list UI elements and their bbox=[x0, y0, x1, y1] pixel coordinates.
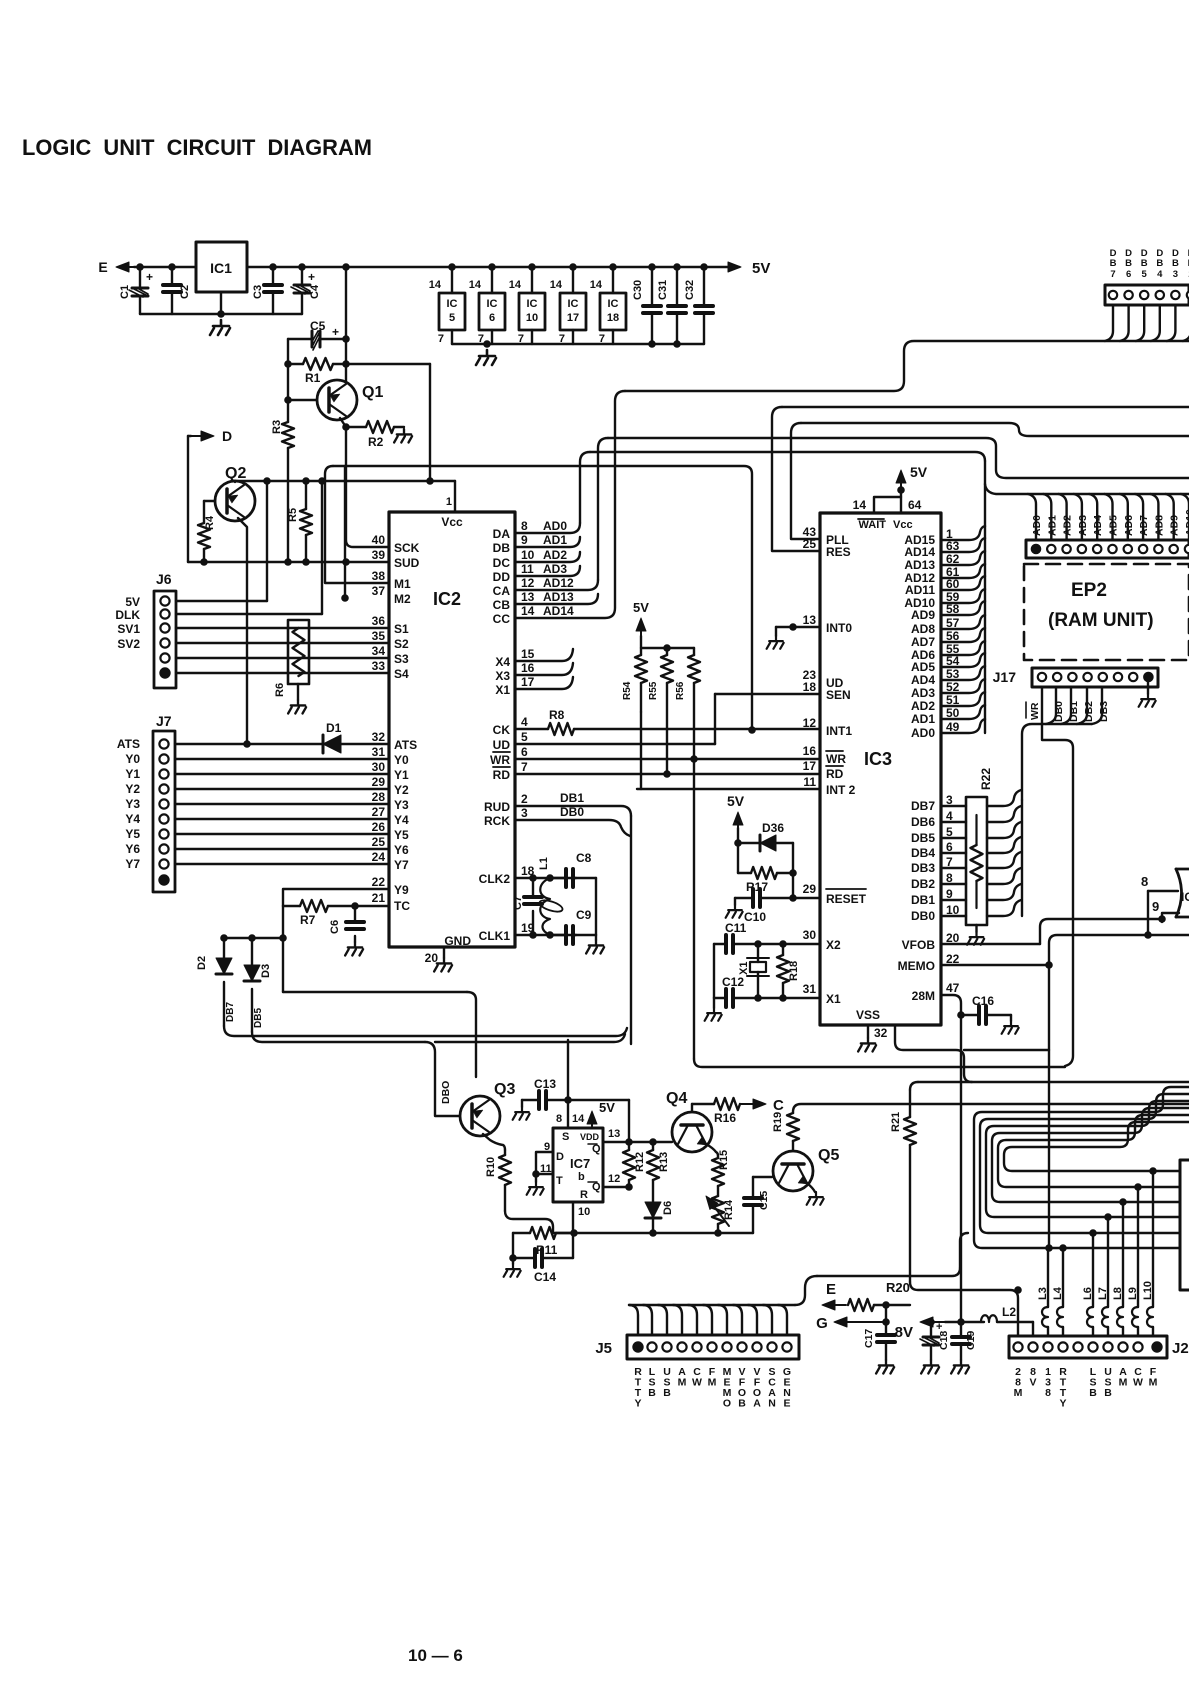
bus riser x=580 to bus line y=452 bbox=[580, 452, 590, 523]
svg-text:C1: C1 bbox=[119, 285, 131, 299]
svg-text:Y4: Y4 bbox=[125, 812, 140, 826]
wire: DB5/DB0 line right bbox=[252, 1032, 425, 1042]
svg-text:17: 17 bbox=[803, 759, 817, 773]
svg-text:B: B bbox=[648, 1387, 656, 1399]
capacitor C1 bbox=[136, 263, 144, 271]
svg-text:DB: DB bbox=[493, 541, 511, 555]
wire: vertical from R7 down to Q3 feed line bbox=[282, 906, 284, 938]
wire: Q5 base from C15 bbox=[753, 1176, 772, 1178]
svg-text:M: M bbox=[708, 1377, 717, 1389]
svg-text:RESET: RESET bbox=[826, 892, 867, 906]
bottom rail of IC7 block bbox=[553, 1232, 753, 1234]
bus: J5 pin entries onto bus line y=1305 bbox=[629, 1305, 638, 1335]
svg-text:8: 8 bbox=[556, 1113, 562, 1125]
svg-text:+: + bbox=[332, 325, 339, 339]
svg-text:AD3: AD3 bbox=[911, 686, 935, 700]
svg-text:IC2: IC2 bbox=[433, 589, 461, 609]
svg-text:M1: M1 bbox=[394, 577, 411, 591]
wire: Q2 collector bbox=[234, 481, 236, 482]
svg-text:N: N bbox=[768, 1398, 776, 1410]
svg-text:Y3: Y3 bbox=[394, 798, 409, 812]
svg-text:14: 14 bbox=[853, 498, 867, 512]
svg-text:IC3: IC3 bbox=[864, 749, 892, 769]
svg-text:C14: C14 bbox=[534, 1270, 556, 1284]
svg-text:TC: TC bbox=[394, 899, 410, 913]
svg-text:13: 13 bbox=[521, 590, 535, 604]
svg-text:M: M bbox=[1149, 1377, 1158, 1389]
svg-text:C31: C31 bbox=[657, 280, 669, 300]
wire: C13 node up bbox=[567, 1040, 569, 1100]
svg-text:IC: IC bbox=[487, 298, 498, 310]
svg-text:D3: D3 bbox=[260, 964, 272, 978]
svg-text:14: 14 bbox=[521, 604, 535, 618]
resistor R2 bbox=[346, 426, 366, 428]
svg-text:C: C bbox=[773, 1097, 784, 1114]
wires: L columns up to bus lines bbox=[1062, 1248, 1064, 1307]
svg-text:J7: J7 bbox=[156, 713, 172, 729]
wire: Q3 emitter to R10 bbox=[483, 1134, 505, 1150]
svg-text:Q: Q bbox=[592, 1143, 601, 1155]
wire: Q4 emitter to R15 bbox=[706, 1144, 718, 1156]
wires: AD strip pins up to feed line bbox=[1028, 494, 1036, 540]
svg-text:Q2: Q2 bbox=[225, 465, 246, 482]
svg-text:5V: 5V bbox=[599, 1100, 615, 1115]
svg-text:4: 4 bbox=[1157, 269, 1163, 280]
svg-text:W: W bbox=[692, 1377, 702, 1389]
wire: bottom rail of input caps bbox=[140, 313, 302, 315]
svg-text:32: 32 bbox=[874, 1026, 888, 1040]
svg-text:R8: R8 bbox=[549, 708, 565, 722]
svg-text:IC: IC bbox=[447, 298, 458, 310]
svg-text:Y7: Y7 bbox=[394, 858, 409, 872]
svg-text:1: 1 bbox=[446, 496, 452, 508]
svg-text:R12: R12 bbox=[634, 1152, 646, 1172]
svg-text:28M: 28M bbox=[912, 989, 935, 1003]
svg-text:IC7: IC7 bbox=[570, 1156, 590, 1171]
svg-text:6: 6 bbox=[489, 312, 495, 324]
svg-text:WR: WR bbox=[490, 753, 510, 767]
wire: WR line IC2-IC3 bbox=[515, 758, 820, 760]
wire: DB5 line continue to bus bbox=[435, 1034, 625, 1042]
svg-text:13: 13 bbox=[803, 613, 817, 627]
svg-text:AD13: AD13 bbox=[904, 558, 935, 572]
svg-text:DB1: DB1 bbox=[911, 893, 935, 907]
svg-text:Y7: Y7 bbox=[125, 857, 140, 871]
svg-text:6: 6 bbox=[521, 745, 528, 759]
ground below IC1 bbox=[220, 292, 222, 314]
svg-text:8V: 8V bbox=[895, 1324, 913, 1341]
svg-text:18: 18 bbox=[803, 680, 817, 694]
svg-text:L2: L2 bbox=[1002, 1305, 1016, 1319]
svg-text:Y3: Y3 bbox=[125, 797, 140, 811]
svg-text:B: B bbox=[1104, 1387, 1112, 1399]
svg-text:8: 8 bbox=[521, 519, 528, 533]
svg-text:AD4: AD4 bbox=[911, 673, 935, 687]
svg-text:X1: X1 bbox=[738, 962, 750, 975]
svg-text:C30: C30 bbox=[632, 280, 644, 300]
wire: J17 WR pin descends and jogs to long vertical bbox=[1042, 687, 1073, 1066]
wire: line y=466 to INT1 vertical bbox=[333, 466, 752, 730]
wire: VFOB line to gate pin 9 bbox=[941, 943, 1040, 945]
svg-text:INT1: INT1 bbox=[826, 724, 852, 738]
wires: J7 Y0-Y7 to IC2 bbox=[175, 758, 389, 760]
node D arrow bbox=[191, 435, 201, 437]
svg-text:12: 12 bbox=[608, 1173, 620, 1185]
svg-text:DB1: DB1 bbox=[560, 791, 584, 805]
svg-text:3: 3 bbox=[1173, 269, 1178, 280]
svg-text:M: M bbox=[1119, 1377, 1128, 1389]
wire: IC7 Qbar pin 12 bbox=[603, 1186, 629, 1188]
svg-text:SV1: SV1 bbox=[117, 622, 140, 636]
wire: M1 feed from line y=466 bbox=[325, 466, 389, 583]
svg-text:DC: DC bbox=[493, 556, 511, 570]
svg-text:12: 12 bbox=[803, 716, 817, 730]
svg-text:C19: C19 bbox=[965, 1331, 977, 1350]
wire: MEMO node bbox=[941, 964, 1049, 966]
svg-text:B: B bbox=[1172, 258, 1179, 269]
svg-text:14: 14 bbox=[590, 279, 603, 291]
svg-text:+: + bbox=[936, 1321, 942, 1333]
svg-text:AD2: AD2 bbox=[543, 548, 567, 562]
svg-text:C12: C12 bbox=[722, 975, 744, 989]
capacitor C2 bbox=[168, 263, 176, 271]
svg-text:DB4: DB4 bbox=[911, 846, 935, 860]
wire: J6 pin1 5V to rail bbox=[176, 600, 267, 602]
wire: gate pin 9 elbow bbox=[1162, 913, 1179, 919]
svg-text:DD: DD bbox=[493, 570, 511, 584]
wire: y=1050 segment to MEMO riser corner bbox=[964, 1049, 1049, 1051]
wire: R1/C5 left vertical bbox=[287, 339, 289, 399]
svg-text:R54: R54 bbox=[622, 681, 633, 700]
bus riser x=598 to bus line y=438 bbox=[598, 438, 608, 580]
svg-text:R6: R6 bbox=[274, 683, 286, 697]
svg-text:Q: Q bbox=[592, 1181, 601, 1193]
wire: D2/D3 top wire bbox=[224, 937, 283, 939]
svg-text:5V: 5V bbox=[910, 464, 928, 480]
resistor network R6 bbox=[288, 620, 309, 684]
svg-text:AD0: AD0 bbox=[543, 519, 567, 533]
svg-text:J17: J17 bbox=[993, 669, 1017, 685]
svg-text:14: 14 bbox=[429, 279, 442, 291]
svg-text:Y2: Y2 bbox=[394, 783, 409, 797]
svg-text:R10: R10 bbox=[485, 1157, 497, 1177]
svg-text:AD5: AD5 bbox=[1108, 515, 1120, 536]
capacitor C32 bbox=[700, 263, 708, 271]
ground at C10 bbox=[734, 898, 736, 905]
svg-text:CC: CC bbox=[493, 612, 511, 626]
wire: IC7 Q to Q4 base bbox=[603, 1141, 672, 1143]
svg-text:DB5: DB5 bbox=[911, 831, 935, 845]
bus: IC2 AD0-AD3 merge into vertical riser bbox=[515, 523, 580, 533]
capacitor C31 bbox=[673, 263, 681, 271]
svg-text:AD11: AD11 bbox=[905, 583, 935, 597]
svg-text:AD3: AD3 bbox=[1077, 515, 1089, 536]
svg-text:AD14: AD14 bbox=[904, 545, 935, 559]
svg-text:IC: IC bbox=[608, 298, 619, 310]
svg-text:R22: R22 bbox=[979, 768, 993, 790]
svg-text:Y2: Y2 bbox=[125, 782, 140, 796]
svg-text:C18: C18 bbox=[938, 1331, 950, 1350]
svg-text:SUD: SUD bbox=[394, 556, 420, 570]
bus: DB bus vertical x=1022 segment bbox=[1021, 800, 1023, 916]
bypass IC row: IC5 IC6 IC10 IC17 IC18 bbox=[448, 263, 456, 271]
svg-text:5: 5 bbox=[521, 730, 528, 744]
svg-text:AD0: AD0 bbox=[911, 726, 935, 740]
resistor R4 bbox=[204, 500, 215, 502]
wire: R21 to J2 28M pin bbox=[910, 1282, 1018, 1336]
node G arrow bbox=[847, 1321, 886, 1323]
wire: SUD rail bbox=[188, 561, 389, 563]
svg-text:C15: C15 bbox=[758, 1191, 770, 1210]
svg-text:4: 4 bbox=[521, 715, 528, 729]
svg-text:8: 8 bbox=[1045, 1387, 1051, 1399]
wire: MEMO riser to gate pin8 line y=935 bbox=[1049, 935, 1189, 965]
svg-text:C11: C11 bbox=[725, 921, 747, 935]
svg-text:EP2: EP2 bbox=[1071, 580, 1107, 601]
node C arrow bbox=[740, 1103, 753, 1105]
svg-text:AD12: AD12 bbox=[543, 576, 574, 590]
svg-text:C32: C32 bbox=[684, 280, 696, 300]
svg-text:CLK1: CLK1 bbox=[479, 929, 511, 943]
svg-text:B: B bbox=[1156, 258, 1163, 269]
svg-text:13: 13 bbox=[608, 1128, 620, 1140]
svg-text:14: 14 bbox=[469, 279, 482, 291]
svg-text:AD0: AD0 bbox=[1031, 515, 1043, 536]
svg-text:AD8: AD8 bbox=[911, 622, 935, 636]
wire: MEMO dropper x=1049 bbox=[1048, 965, 1050, 1248]
svg-text:DB7: DB7 bbox=[225, 1002, 236, 1022]
capacitor C30 bbox=[648, 263, 656, 271]
svg-text:Y: Y bbox=[634, 1398, 641, 1410]
svg-text:5V: 5V bbox=[752, 260, 770, 277]
voltage regulator IC1 bbox=[196, 242, 247, 292]
svg-text:DLK: DLK bbox=[115, 608, 140, 622]
transistor Q4 bbox=[672, 1112, 712, 1152]
svg-text:R17: R17 bbox=[746, 880, 768, 894]
wire: RESET pin 29 bbox=[793, 897, 820, 899]
bus line: y=438 diving to y=478 over AD labels bbox=[608, 438, 1189, 478]
svg-text:MEMO: MEMO bbox=[898, 959, 935, 973]
svg-text:E: E bbox=[783, 1398, 790, 1410]
wire: C13 node right to R12 riser bbox=[568, 1099, 629, 1101]
svg-text:DB2: DB2 bbox=[911, 877, 935, 891]
wire: J6 pin2 DLK bbox=[176, 613, 322, 615]
svg-text:12: 12 bbox=[521, 576, 535, 590]
svg-text:D2: D2 bbox=[196, 956, 208, 970]
svg-text:5V: 5V bbox=[125, 595, 140, 609]
svg-text:VSS: VSS bbox=[856, 1008, 880, 1022]
svg-text:8: 8 bbox=[1141, 874, 1148, 889]
wire: J5 bus line y=1276 to riser bbox=[817, 1268, 960, 1276]
svg-text:GND: GND bbox=[444, 934, 471, 948]
svg-text:17: 17 bbox=[521, 675, 535, 689]
node 8V arrow bbox=[933, 1321, 945, 1323]
svg-text:10: 10 bbox=[578, 1206, 590, 1218]
wire: Q5 emitter to ground bbox=[807, 1183, 815, 1192]
svg-text:AD13: AD13 bbox=[543, 590, 574, 604]
wire: RUD DB1 to bus riser bbox=[515, 806, 631, 816]
svg-text:+: + bbox=[308, 270, 315, 284]
svg-text:A: A bbox=[753, 1398, 761, 1410]
svg-text:O: O bbox=[723, 1398, 731, 1410]
svg-text:RCK: RCK bbox=[484, 814, 510, 828]
svg-text:X1: X1 bbox=[826, 992, 841, 1006]
wire: Q1 emitter to SCK pin 40 bbox=[346, 427, 389, 547]
svg-text:AD14: AD14 bbox=[543, 604, 574, 618]
svg-text:DBO: DBO bbox=[440, 1081, 452, 1104]
svg-text:+: + bbox=[146, 270, 153, 284]
ground at C14 bbox=[512, 1258, 514, 1264]
svg-text:B: B bbox=[1141, 258, 1148, 269]
right-edge module box bbox=[1180, 1160, 1189, 1290]
svg-text:UD: UD bbox=[493, 738, 511, 752]
microprocessor IC2 bbox=[389, 512, 515, 947]
svg-text:DB0: DB0 bbox=[911, 909, 935, 923]
svg-text:AD3: AD3 bbox=[543, 562, 567, 576]
svg-text:INT 2: INT 2 bbox=[826, 783, 856, 797]
svg-text:29: 29 bbox=[372, 775, 386, 789]
svg-text:Y6: Y6 bbox=[394, 843, 409, 857]
svg-text:C10: C10 bbox=[744, 910, 766, 924]
wire: PLL feed from bus y=423 bbox=[791, 423, 820, 539]
svg-text:X1: X1 bbox=[495, 683, 510, 697]
svg-text:SEN: SEN bbox=[826, 688, 851, 702]
svg-text:D6: D6 bbox=[662, 1201, 674, 1215]
svg-text:S: S bbox=[562, 1131, 569, 1143]
svg-text:E: E bbox=[826, 1281, 836, 1298]
ground at C16 bbox=[1010, 1015, 1012, 1021]
wire: 5V drop to Q1 collector bbox=[342, 263, 350, 271]
svg-text:AD1: AD1 bbox=[911, 712, 935, 726]
svg-text:R1: R1 bbox=[305, 371, 321, 385]
svg-text:R: R bbox=[580, 1189, 588, 1201]
flip-flop IC7 bbox=[553, 1128, 603, 1202]
svg-text:14: 14 bbox=[572, 1113, 585, 1125]
wire: gate pin 8 jog bbox=[1148, 890, 1178, 892]
ground at R2 bbox=[394, 429, 412, 443]
svg-text:INT0: INT0 bbox=[826, 621, 852, 635]
svg-text:X3: X3 bbox=[495, 669, 510, 683]
wire: Q1 node to IC2 Vcc bbox=[346, 363, 430, 365]
wire: 28M pin elbow to C16 bbox=[941, 995, 961, 1015]
node E arrow and R20 bbox=[835, 1304, 846, 1306]
bus: IC3 AD pin entries bbox=[941, 526, 985, 540]
svg-text:Y5: Y5 bbox=[125, 827, 140, 841]
wire: M2 riser to line y=466 bbox=[341, 594, 349, 602]
5V arrow at IC7 VDD bbox=[591, 1124, 593, 1126]
svg-text:(RAM UNIT): (RAM UNIT) bbox=[1048, 610, 1154, 631]
svg-text:16: 16 bbox=[521, 661, 535, 675]
svg-text:M: M bbox=[678, 1377, 687, 1389]
wire: CLK1 line bbox=[515, 934, 576, 936]
svg-text:5V: 5V bbox=[633, 600, 649, 615]
svg-text:35: 35 bbox=[372, 629, 386, 643]
svg-text:Y0: Y0 bbox=[394, 753, 409, 767]
svg-text:S3: S3 bbox=[394, 652, 409, 666]
transistor Q2 bbox=[215, 481, 255, 521]
svg-text:AD4: AD4 bbox=[1092, 515, 1104, 536]
svg-text:AD5: AD5 bbox=[911, 660, 935, 674]
svg-text:B: B bbox=[738, 1398, 746, 1410]
svg-text:ATS: ATS bbox=[117, 737, 140, 751]
svg-text:36: 36 bbox=[372, 614, 386, 628]
svg-text:AD10: AD10 bbox=[1184, 509, 1189, 536]
svg-text:D36: D36 bbox=[762, 821, 784, 835]
svg-text:B: B bbox=[1089, 1387, 1097, 1399]
svg-text:M: M bbox=[1014, 1387, 1023, 1399]
svg-text:VFOB: VFOB bbox=[902, 938, 936, 952]
connector EP2 AD strip bbox=[1026, 540, 1189, 558]
svg-text:AD9: AD9 bbox=[1169, 515, 1181, 536]
svg-text:17: 17 bbox=[567, 312, 579, 324]
svg-text:AD1: AD1 bbox=[543, 533, 567, 547]
svg-text:29: 29 bbox=[803, 882, 817, 896]
svg-text:E: E bbox=[98, 259, 107, 275]
svg-text:Vcc: Vcc bbox=[893, 519, 913, 531]
ground at IC7 T pin bbox=[535, 1174, 537, 1182]
bus: J5 bus S-curve up to y=1276 line bbox=[795, 1276, 817, 1305]
wires: IC3 DB pins through R22 to DB bus bbox=[941, 805, 966, 807]
svg-text:37: 37 bbox=[372, 584, 386, 598]
svg-text:B: B bbox=[663, 1387, 671, 1399]
svg-text:Q4: Q4 bbox=[666, 1090, 687, 1107]
wire: E to 5V top rail bbox=[129, 266, 134, 268]
svg-text:AD7: AD7 bbox=[1138, 515, 1150, 536]
svg-text:DB3: DB3 bbox=[911, 861, 935, 875]
svg-text:Q3: Q3 bbox=[494, 1081, 515, 1098]
svg-text:DB6: DB6 bbox=[911, 815, 935, 829]
svg-text:b: b bbox=[578, 1171, 585, 1183]
svg-text:ATS: ATS bbox=[394, 738, 417, 752]
svg-text:IC: IC bbox=[1181, 890, 1189, 904]
svg-text:WR: WR bbox=[826, 752, 846, 766]
svg-text:R5: R5 bbox=[287, 508, 299, 522]
svg-text:C8: C8 bbox=[576, 851, 592, 865]
ground at J17 pin 8 bbox=[1147, 682, 1149, 694]
wire: RD line IC2-IC3 bbox=[515, 773, 820, 775]
wires: J17 DB0-DB3 curve onto y=724 line bbox=[1046, 687, 1056, 724]
wire: 5V rail y=481 over Q2 bbox=[235, 480, 430, 482]
svg-text:30: 30 bbox=[803, 928, 817, 942]
wire: WR node feed down x=695 bbox=[693, 759, 695, 1059]
svg-text:J6: J6 bbox=[156, 571, 172, 587]
bus lines: U-turn bundle bbox=[1004, 1122, 1189, 1171]
svg-text:CA: CA bbox=[493, 584, 511, 598]
svg-text:Y1: Y1 bbox=[394, 768, 409, 782]
svg-text:38: 38 bbox=[372, 569, 386, 583]
svg-text:R7: R7 bbox=[300, 913, 316, 927]
svg-text:27: 27 bbox=[372, 805, 386, 819]
svg-text:DA: DA bbox=[493, 527, 511, 541]
svg-text:M2: M2 bbox=[394, 592, 411, 606]
svg-text:11: 11 bbox=[521, 562, 534, 576]
svg-text:AD6: AD6 bbox=[1123, 515, 1135, 536]
wire: IC7 D pin loop bbox=[536, 1152, 553, 1174]
svg-text:39: 39 bbox=[372, 548, 386, 562]
svg-text:Y1: Y1 bbox=[125, 767, 140, 781]
svg-text:18: 18 bbox=[607, 312, 619, 324]
wire: L2 to J2 8V pin bbox=[1032, 1322, 1034, 1336]
svg-text:32: 32 bbox=[372, 730, 386, 744]
svg-text:B: B bbox=[1110, 258, 1117, 269]
transistor Q1 bbox=[317, 380, 357, 420]
svg-text:C2: C2 bbox=[179, 285, 191, 299]
svg-text:10: 10 bbox=[526, 312, 538, 324]
bus line: PLL y=423 with step bbox=[801, 423, 1189, 436]
svg-text:31: 31 bbox=[372, 745, 386, 759]
capacitor C4 bbox=[298, 263, 306, 271]
wire: RCK DB0 to bus riser bbox=[515, 820, 630, 836]
